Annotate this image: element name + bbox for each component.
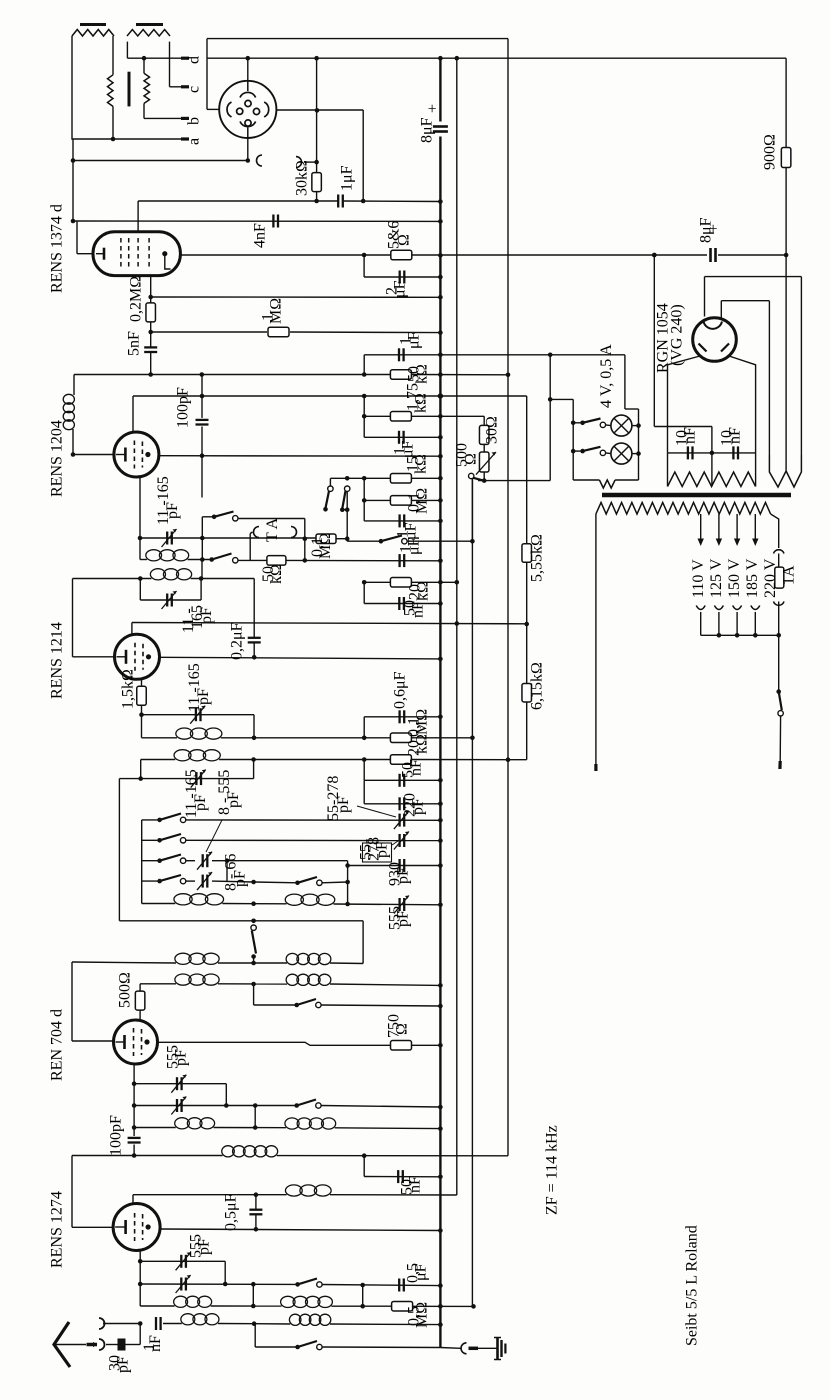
node bus — [438, 778, 443, 783]
resistor 750 Ohm — [391, 1041, 412, 1051]
node — [362, 580, 367, 585]
svg-text:0,2MΩ: 0,2MΩ — [127, 276, 144, 322]
capacitor 8uF block in bus — [433, 125, 448, 128]
wire — [363, 396, 365, 416]
node — [710, 451, 715, 456]
wire rail y582.3 — [364, 581, 390, 583]
inductor tank2 coil — [150, 569, 165, 580]
wire chassis rail y160 — [73, 160, 248, 162]
wire tank1 cap rail y538 — [140, 537, 316, 539]
socket connector circle — [219, 81, 276, 138]
wire — [126, 1344, 141, 1346]
node — [132, 1153, 137, 1158]
tube RENS1374d anode — [162, 251, 167, 256]
wire — [362, 921, 364, 964]
node — [251, 901, 256, 906]
wire — [363, 780, 365, 804]
wire tank2 row y578.5 — [73, 578, 152, 580]
wire 50k row — [238, 559, 267, 561]
jack antenna 2 — [99, 1339, 105, 1350]
switch bank row 4 — [142, 880, 160, 882]
capacitor 1uF coupling — [337, 195, 339, 208]
node — [455, 621, 460, 626]
switch bank row 1 — [142, 819, 160, 821]
wire — [478, 1347, 497, 1349]
wire — [321, 1005, 440, 1006]
wire row3 to trimmer — [186, 860, 195, 862]
wire row1 to bus — [186, 819, 440, 821]
wire — [72, 429, 74, 455]
svg-text:pF: pF — [335, 796, 352, 813]
node — [470, 736, 475, 741]
node — [362, 736, 367, 741]
node bus — [438, 715, 443, 720]
wire cathode lead — [72, 1226, 113, 1228]
svg-text:nF: nF — [681, 427, 698, 444]
switch y1284 — [298, 1279, 317, 1285]
wire 100pF branch — [201, 375, 203, 418]
capacitor 220pF — [398, 797, 400, 810]
svg-text:μF: μF — [405, 331, 422, 349]
node bus — [438, 818, 443, 823]
wire tube left lead — [77, 253, 93, 255]
node bus — [438, 1304, 443, 1309]
node — [223, 1282, 228, 1287]
node — [71, 452, 76, 457]
node — [138, 1259, 143, 1264]
wire 0.6uF rail y716.8 — [364, 716, 440, 718]
wire socket bottom lead — [247, 138, 249, 161]
node — [362, 253, 367, 258]
lamp bottom wire — [573, 479, 599, 481]
node — [138, 776, 143, 781]
wire tankB right — [253, 759, 255, 779]
trimmer 555pF osc — [398, 898, 400, 911]
wire rail y803.8 (220p) — [364, 803, 440, 805]
switch y1105 — [297, 1100, 316, 1106]
wire 2uF branch — [363, 255, 365, 277]
wire TA left down — [249, 534, 251, 561]
resistor 20kOhm 2 — [390, 755, 411, 765]
wire — [363, 760, 365, 781]
inductor osc coil C — [174, 894, 192, 905]
wire — [779, 716, 781, 761]
fuse holder arc top — [774, 550, 785, 554]
wire antenna row y1323.5 — [103, 1323, 140, 1325]
inductor osc row2 coil a — [175, 974, 191, 985]
node — [345, 536, 350, 541]
wire tank2 sides — [139, 579, 141, 601]
trimmer 555pF d — [180, 1278, 182, 1291]
wire rail y500.4 (0.1M) — [364, 499, 390, 501]
resistor 30kOhm — [312, 173, 322, 192]
svg-text:kΩ: kΩ — [413, 734, 430, 754]
node bus — [438, 657, 443, 662]
svg-text:d: d — [185, 56, 202, 64]
capacitor 50nF 3 — [397, 1170, 399, 1183]
wire osc row1 y963 — [72, 962, 176, 963]
heater winding right — [769, 455, 786, 487]
trimmer 8-66 pF 1 — [202, 854, 204, 867]
wire row3 right — [227, 860, 348, 862]
inductor tank3 coil — [176, 728, 193, 739]
capacitor 100pF — [196, 419, 209, 421]
wire antenna feed — [54, 1344, 86, 1346]
node bus — [438, 1126, 443, 1131]
node bus — [438, 1105, 443, 1110]
svg-text:MΩ: MΩ — [413, 709, 430, 735]
inductor row coil b — [285, 1118, 299, 1129]
node — [251, 982, 256, 987]
node — [303, 558, 308, 563]
switch TA a — [202, 516, 214, 518]
wire anode rail y455.7 — [159, 455, 441, 458]
node — [360, 1283, 365, 1288]
svg-text:pF: pF — [164, 502, 181, 519]
wire rectifier filament lead outer — [704, 277, 706, 317]
wire speaker terminal c — [169, 42, 171, 87]
node — [254, 1192, 259, 1197]
wire tube3 bottom x134.1 — [133, 1064, 135, 1136]
wire — [224, 1261, 226, 1284]
wire — [254, 1323, 290, 1325]
node — [148, 372, 153, 377]
wire mains lead 1 — [595, 514, 597, 764]
node bus — [438, 435, 443, 440]
svg-text:Seibt 5/5 L Roland: Seibt 5/5 L Roland — [683, 1225, 700, 1346]
svg-text:5,55kΩ: 5,55kΩ — [528, 534, 545, 582]
node — [252, 1321, 257, 1326]
wire — [322, 1346, 440, 1349]
wire tap bottom rail — [701, 634, 779, 636]
svg-text:30Ω: 30Ω — [483, 416, 500, 444]
tube RGN 1054 rectifier — [693, 318, 737, 362]
primary winding zigzag — [596, 503, 771, 515]
node — [142, 56, 147, 61]
node bus — [438, 1004, 443, 1009]
wire switch down — [471, 479, 473, 542]
fuse 1A — [775, 567, 784, 588]
node — [548, 397, 553, 402]
node — [362, 414, 367, 419]
fuse holder arc bottom — [774, 602, 785, 606]
node — [254, 1227, 259, 1232]
resistor 5&amp;6 Ohm — [391, 250, 412, 260]
wire cath down — [141, 679, 143, 737]
capacitor 10nF a — [687, 446, 689, 459]
svg-text:pF: pF — [394, 910, 411, 927]
antenna symbol — [54, 1322, 70, 1367]
lamp 2 — [611, 443, 632, 464]
wire grid up x133 — [132, 396, 134, 432]
wire vertical x507.3 — [507, 39, 509, 1156]
node bus — [438, 253, 443, 258]
capacitor 10nF b — [732, 446, 734, 459]
switch y1005 — [297, 999, 316, 1005]
tap wire 2 — [718, 514, 720, 540]
node socket bottom — [246, 158, 251, 163]
node bus — [438, 498, 443, 503]
capacitor 8uF electrolytic right — [709, 248, 712, 262]
resistor 6.15kOhm — [522, 683, 532, 702]
node bus — [438, 1228, 443, 1233]
wire screen rail y221 — [73, 220, 440, 222]
node — [362, 1153, 367, 1158]
node bus — [438, 414, 443, 419]
loudspeaker magnet bar 2 — [136, 23, 163, 26]
wire — [321, 1106, 440, 1108]
capacitor 1uF — [398, 514, 400, 527]
node — [138, 1321, 143, 1326]
capacitor 50nF — [398, 597, 400, 610]
svg-text:4nF: 4nF — [251, 223, 268, 248]
wire — [212, 860, 227, 862]
node bus — [438, 559, 443, 564]
wire socket left lead — [206, 39, 208, 110]
pointer line 55-278 — [357, 806, 396, 817]
wire — [363, 416, 365, 437]
tube RENS 1214 — [115, 634, 160, 679]
wire grid up — [131, 623, 133, 635]
lamp zigzag — [599, 480, 615, 488]
wire 30k vertical — [316, 58, 318, 172]
node — [314, 160, 319, 165]
trimmer 55-278 row2 — [398, 834, 400, 847]
tube RENS1374d grids dashed — [120, 238, 122, 268]
svg-text:900Ω: 900Ω — [761, 134, 778, 170]
node — [345, 902, 350, 907]
wire — [252, 1284, 254, 1306]
wire HV centre tap — [711, 448, 713, 487]
svg-text:T A: T A — [264, 517, 281, 542]
wire — [238, 518, 305, 520]
wire — [363, 500, 365, 521]
wire — [253, 984, 255, 1005]
node — [345, 863, 350, 868]
svg-text:0,6μF: 0,6μF — [391, 671, 408, 709]
trimmer 11-165pF tank2 — [166, 594, 168, 607]
svg-text:pF: pF — [192, 794, 209, 811]
svg-text:0,5μF: 0,5μF — [222, 1193, 239, 1231]
potentiometer 500 Ohm — [479, 452, 489, 472]
node — [132, 1081, 137, 1086]
jack ground — [461, 1343, 467, 1354]
inductor row coil a — [175, 1118, 190, 1129]
transformer core — [602, 493, 791, 498]
node — [506, 373, 511, 378]
svg-text:MΩ: MΩ — [413, 488, 430, 514]
svg-text:nF: nF — [409, 601, 426, 618]
tap wire 1 — [700, 514, 702, 540]
wire — [363, 717, 365, 738]
resistor 0.1MOhm TA — [316, 534, 336, 544]
wire x202.3 vertical — [201, 517, 203, 560]
node — [345, 880, 350, 885]
node — [138, 1282, 143, 1287]
node bus — [438, 454, 443, 459]
wire rail y520.9 (1uF) — [364, 520, 440, 522]
switch wave band 2 — [345, 486, 350, 491]
wire left x72.5 — [72, 579, 74, 657]
resistor 0.1MOhm — [390, 496, 411, 506]
svg-text:pF: pF — [232, 870, 249, 887]
trimmer 11-165pF tank1 — [166, 532, 168, 545]
wire rail y297 — [151, 296, 441, 298]
wire tankB cap row y778.6 — [119, 778, 253, 780]
inductor grid coil — [285, 1185, 302, 1196]
wire row2 to bus — [186, 839, 440, 841]
svg-text:4 V, 0,5 A: 4 V, 0,5 A — [598, 344, 615, 408]
node — [636, 423, 641, 428]
wire — [778, 635, 780, 691]
trimmer 11-165 tankB — [195, 772, 197, 785]
resistor speaker zigzag 1 — [72, 30, 114, 37]
node — [200, 536, 205, 541]
wire 0.5uF stubs — [255, 1195, 257, 1210]
svg-text:MΩ: MΩ — [317, 533, 334, 559]
lamp circuit left — [550, 398, 573, 400]
svg-text:kΩ: kΩ — [413, 364, 430, 384]
node — [455, 580, 460, 585]
svg-text:100pF: 100pF — [174, 387, 191, 428]
node bus — [438, 1043, 443, 1048]
node — [470, 539, 475, 544]
node bus — [438, 863, 443, 868]
socket pins — [245, 100, 251, 106]
svg-text:Ω: Ω — [462, 453, 479, 465]
svg-text:μF: μF — [412, 1263, 429, 1281]
wire — [254, 1324, 256, 1347]
jack antenna 1 — [99, 1318, 105, 1329]
svg-text:kΩ: kΩ — [412, 393, 429, 413]
node bus — [438, 275, 443, 280]
tap wire 4 — [754, 514, 756, 540]
wire tube1374 cathode down — [150, 276, 152, 304]
wire x119.4 vertical — [118, 779, 120, 921]
switch bank row 2 — [142, 839, 160, 841]
wire — [606, 452, 611, 455]
node — [148, 330, 153, 335]
inductor tank1 coil — [146, 550, 162, 561]
svg-text:(VG 240): (VG 240) — [669, 304, 686, 366]
wire — [778, 554, 780, 568]
node — [471, 1304, 476, 1309]
wire vertical x472.4 (mains sw line) — [471, 479, 473, 1307]
wire — [329, 478, 331, 486]
wire grid rail y622.5 — [132, 623, 527, 624]
wire — [483, 445, 485, 452]
node — [379, 539, 384, 544]
resistor 500 Ohm — [135, 991, 145, 1010]
svg-text:nF: nF — [406, 1176, 423, 1193]
lamp 1 — [611, 415, 632, 436]
label 55-278 boxed — [363, 843, 392, 862]
resistor 0.5MOhm — [392, 1301, 413, 1311]
inductor osc row1 coil a — [175, 953, 191, 964]
svg-text:RENS 1204: RENS 1204 — [48, 420, 65, 497]
node — [252, 655, 257, 660]
inductor osc row1 coil b — [286, 953, 298, 964]
resistor 0.2MOhm — [146, 303, 156, 322]
switch on pot — [469, 473, 474, 478]
node bus — [438, 580, 443, 585]
svg-text:REN 704 d: REN 704 d — [48, 1009, 65, 1081]
node bus — [438, 1283, 443, 1288]
node — [652, 253, 657, 258]
node bus — [438, 393, 443, 398]
wire — [254, 1106, 256, 1128]
svg-text:Ω: Ω — [395, 234, 412, 246]
wire — [362, 1285, 364, 1306]
capacitor 1nF antenna — [155, 1317, 157, 1330]
wire coil row y1127.5 — [134, 1127, 176, 1129]
tube RENS 1204 — [114, 432, 159, 477]
svg-text:220 V: 220 V — [762, 558, 779, 598]
capacitor 1uF — [398, 348, 400, 361]
wire tank3 right — [253, 715, 255, 738]
loudspeaker magnet bar 1 — [80, 23, 106, 26]
node bus top — [438, 56, 443, 61]
wire — [606, 424, 611, 427]
wire rail y478.3 — [330, 477, 390, 479]
svg-text:pF: pF — [373, 841, 390, 858]
wire anode rail y657.5 — [160, 657, 441, 659]
wire grid up — [132, 1195, 134, 1204]
node bus — [438, 903, 443, 908]
wire cathode lead — [72, 1040, 114, 1042]
wire ground link — [440, 1347, 460, 1350]
inductor osc coil D — [285, 894, 303, 905]
capacitor 0.5uF 2 — [398, 1279, 400, 1292]
svg-text:110 V: 110 V — [690, 559, 707, 598]
svg-text:kΩ: kΩ — [268, 564, 285, 584]
wire row y1083.7 — [134, 1083, 226, 1085]
wire osc coil row y904 — [142, 903, 176, 905]
svg-text:ZF = 114 kHz: ZF = 114 kHz — [544, 1125, 561, 1215]
wire row y1306 — [140, 1305, 174, 1307]
wire tube2 bottom — [139, 476, 141, 560]
capacitor 100pF 2 — [128, 1137, 141, 1139]
wire cathode lead — [73, 656, 115, 658]
resistor 20kOhm — [390, 578, 411, 588]
node — [361, 199, 366, 204]
node — [636, 451, 641, 456]
wire tank2 cap row — [140, 599, 201, 601]
node speaker bottom — [111, 137, 116, 142]
node — [71, 158, 76, 163]
wire rail y354.8 — [364, 354, 625, 356]
node — [784, 253, 789, 258]
wire left vertical x73 — [72, 139, 74, 221]
node — [253, 1125, 258, 1130]
node — [132, 1125, 137, 1130]
socket top lead — [247, 58, 249, 82]
wire tank1 coil row — [140, 559, 147, 561]
wire rail y780.3 (50n) — [364, 779, 440, 781]
node — [717, 633, 722, 638]
switch row4 — [298, 877, 318, 883]
wire AVC rail y374.5 — [74, 374, 391, 376]
wire bulb anode legs — [668, 356, 701, 453]
node bus — [438, 199, 443, 204]
wire anode rail y1229 — [160, 1229, 440, 1231]
node — [200, 394, 205, 399]
trimmer 11-165 tank3 — [195, 708, 197, 721]
inductor row coil c — [174, 1296, 188, 1307]
trimmer 8-66 pF 2 — [202, 875, 204, 888]
wire — [322, 881, 348, 884]
wire heater mid vertical — [785, 255, 787, 471]
